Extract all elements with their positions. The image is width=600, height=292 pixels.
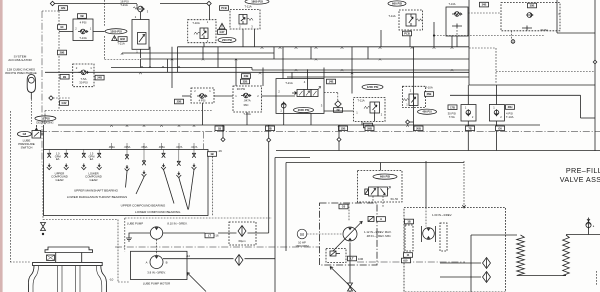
- svg-text:G0: G0: [342, 205, 346, 209]
- svg-text:610M: 610M: [541, 28, 549, 32]
- node arrow 464: [463, 205, 466, 208]
- svg-text:15 PSI: 15 PSI: [41, 116, 50, 120]
- prefill check valve: [586, 218, 595, 235]
- svg-text:1800 RPM: 1800 RPM: [295, 244, 309, 248]
- solenoid compensator top: [368, 217, 386, 222]
- svg-text:T-13A: T-13A: [506, 115, 514, 119]
- wire diamond to v413: [410, 121, 414, 123]
- svg-text:T-10A: T-10A: [425, 86, 433, 90]
- wire relief drop: [361, 121, 363, 125]
- lead line upper compound brg: [164, 170, 175, 204]
- wire v339 drop2: [338, 142, 340, 151]
- boundary dash-dot y131.5: [40, 131, 600, 133]
- wire v497 low: [496, 121, 498, 151]
- value oval 200 PSI: [218, 37, 236, 42]
- filter diamond right1: [483, 258, 491, 269]
- pump group dash-dot box: [320, 203, 378, 265]
- wire v469 low: [467, 121, 469, 151]
- wire left bus dashed: [58, 11, 60, 110]
- svg-text:T-21A: T-21A: [285, 81, 293, 85]
- wire nozzle stem 4: [98, 150, 100, 153]
- wire port tick 179: [178, 143, 180, 150]
- lube motor circle: [146, 256, 168, 269]
- svg-text:14B: 14B: [329, 80, 334, 84]
- wire port tick 144: [143, 143, 145, 150]
- wire v464 dashed: [463, 161, 465, 207]
- wire v452: [451, 36, 453, 47]
- wire motor out right: [163, 258, 234, 260]
- wire y66 rail: [111, 67, 252, 69]
- svg-text:.38 IN.~3/REV. MIN.: .38 IN.~3/REV. MIN.: [366, 234, 391, 238]
- value oval 15 PSI DECREASING: [35, 116, 56, 121]
- wire v368: [367, 47, 369, 59]
- value oval 600 PSI top: [388, 1, 406, 6]
- label G02: [60, 101, 69, 106]
- wire dashed v43: [42, 165, 44, 220]
- wire v557: [556, 0, 558, 33]
- wire nozzle stem 2: [65, 150, 67, 153]
- cooler coil 2: [563, 235, 570, 276]
- cooler coil 1: [517, 235, 525, 276]
- svg-text:T-13A: T-13A: [79, 36, 87, 40]
- wire dashed v104 b: [104, 36, 106, 60]
- wire v218: [217, 47, 219, 68]
- wire pump shaft dashed: [156, 240, 158, 256]
- wire pilot drop1: [372, 196, 374, 202]
- label 14B: [327, 79, 336, 84]
- wire y234 right edge: [566, 234, 600, 236]
- wire v471: [470, 235, 472, 292]
- wire charge pump link: [425, 208, 427, 227]
- wire pilot feed: [380, 163, 382, 171]
- wire dashed lube encl left: [124, 218, 126, 251]
- orifice nozzle 4: [97, 153, 101, 157]
- svg-text:4 PSI: 4 PSI: [199, 99, 206, 103]
- svg-text:600 PSI: 600 PSI: [380, 175, 390, 179]
- solenoid compensator bottom: [326, 249, 346, 263]
- wire dashed solenoid elbow: [324, 92, 338, 94]
- svg-text:24B: 24B: [244, 74, 249, 78]
- svg-text:PRE–FILL: PRE–FILL: [566, 166, 600, 175]
- node diamond right: [207, 1, 211, 5]
- label PCB 2: [403, 31, 412, 36]
- svg-text:1B: 1B: [407, 220, 410, 224]
- wire y96 b: [214, 95, 233, 97]
- wire relief drop2: [374, 113, 376, 121]
- wire dashed 513 drop: [511, 31, 513, 39]
- label 2B: [60, 74, 69, 79]
- wire v426 top: [425, 161, 427, 207]
- wire 4psi drop: [202, 103, 204, 125]
- svg-text:.047A: .047A: [243, 99, 250, 103]
- svg-text:T-11A: T-11A: [357, 99, 364, 103]
- wire v172: [171, 47, 173, 88]
- drain funnel 8: [176, 172, 181, 178]
- pilot valve 600 PSI box: [358, 171, 403, 203]
- svg-text:UPPER COMPOUND BEARING: UPPER COMPOUND BEARING: [121, 204, 166, 208]
- value oval 1200 PSI mid: [362, 84, 383, 89]
- svg-text:G8: G8: [23, 132, 27, 136]
- wire y69 rail: [252, 69, 469, 71]
- wire box feed: [43, 125, 45, 150]
- wire nozzle stem 3: [83, 150, 85, 153]
- check valve 4PSI mid-left: [191, 88, 214, 103]
- wire dashed 457 down: [456, 30, 458, 36]
- svg-text:30H: 30H: [508, 105, 513, 109]
- svg-text:30B: 30B: [530, 4, 535, 8]
- wire main top rail y4: [53, 3, 138, 5]
- charge pump side bars: [421, 226, 423, 242]
- drain funnel 5: [125, 165, 130, 171]
- wire v177: [177, 47, 179, 73]
- label 1x: [208, 152, 217, 157]
- orifice nozzle 2: [64, 153, 68, 157]
- svg-text:-12: -12: [186, 254, 190, 258]
- wire port tick 194: [193, 143, 195, 150]
- wire v352b: [351, 59, 353, 94]
- value oval 2000 PSI: [294, 107, 314, 112]
- node dot 434: [433, 34, 435, 36]
- svg-text:36C: 36C: [243, 103, 248, 107]
- wire 339 drop: [338, 125, 340, 138]
- label 8B: [364, 123, 373, 128]
- wire t13a2 drop: [246, 112, 248, 125]
- wire nozzle stem 7: [163, 150, 165, 153]
- svg-text:LOWER COMPOUND BEARING: LOWER COMPOUND BEARING: [135, 210, 181, 214]
- lube manifold box: [44, 150, 209, 216]
- motor M circle: [297, 229, 307, 239]
- svg-text:1B: 1B: [210, 152, 213, 156]
- label 20B: [414, 126, 423, 131]
- svg-text:9C: 9C: [60, 25, 63, 29]
- svg-text:PCB: PCB: [404, 32, 410, 36]
- node diamond 406: [406, 120, 410, 124]
- drain funnel 1: [47, 164, 52, 170]
- wire v286: [285, 163, 287, 252]
- wire v311: [310, 47, 312, 59]
- pressure switch symbol: [32, 127, 44, 138]
- label 29B: [58, 50, 67, 55]
- wire dashed box top left: [45, 110, 213, 112]
- svg-text:10M: 10M: [358, 257, 363, 261]
- svg-text:T-21A: T-21A: [120, 3, 128, 7]
- svg-text:T-13A: T-13A: [449, 2, 456, 6]
- wire nozzle stem 6: [143, 150, 145, 161]
- wire check box stem: [456, 36, 458, 47]
- svg-text:800 PSI PRECHARGE: 800 PSI PRECHARGE: [5, 71, 36, 75]
- wire lt to filter: [218, 232, 237, 234]
- orifice nozzle 6: [142, 161, 146, 165]
- check valve box top right: [446, 2, 468, 36]
- drain funnel 9: [192, 164, 197, 170]
- node diamond 595: [593, 60, 597, 64]
- lead line mainshaft: [126, 172, 128, 188]
- svg-text:-16: -16: [215, 234, 219, 238]
- lead line radial: [136, 177, 144, 194]
- wire dashed v104: [104, 0, 106, 26]
- crusher bell right2: [96, 266, 102, 292]
- svg-text:2B: 2B: [336, 108, 339, 112]
- wire y118 right: [581, 117, 596, 119]
- svg-text:G6: G6: [498, 126, 502, 130]
- pump variable arrow: [333, 222, 362, 252]
- label 1B charge: [405, 219, 414, 224]
- relief valve T-11A no2 top: [388, 10, 422, 30]
- label 34B: [480, 2, 489, 7]
- svg-text:15B: 15B: [341, 126, 346, 130]
- wire solenoid port1 drop: [283, 108, 285, 125]
- svg-text:26B: 26B: [427, 92, 432, 96]
- orifice nozzle 3: [82, 153, 86, 157]
- wire v580 right: [580, 95, 582, 118]
- label 9C: [58, 25, 67, 30]
- svg-text:1800 PSI: 1800 PSI: [251, 0, 263, 4]
- svg-text:T-11A: T-11A: [388, 14, 395, 18]
- svg-text:20B: 20B: [416, 126, 421, 130]
- label 32B: [241, 79, 250, 84]
- wire y157 stub: [275, 157, 310, 159]
- wire y77 rail: [287, 76, 469, 78]
- svg-text:25B: 25B: [177, 100, 182, 104]
- filter 60um dashed box: [229, 222, 256, 245]
- wire dashdot v42: [41, 11, 43, 165]
- relief valve T-10A no1: [188, 20, 216, 47]
- svg-text:G02: G02: [62, 101, 67, 105]
- wire dashed v212: [212, 157, 214, 216]
- label 6B: [78, 14, 87, 19]
- wire dashdot y262: [357, 261, 465, 263]
- relief valve top centre: [230, 10, 260, 30]
- crusher bell left2: [33, 266, 39, 292]
- svg-text:2000 PSI: 2000 PSI: [298, 108, 310, 112]
- label 24B right: [242, 74, 251, 79]
- wire dashed lube encl top: [125, 217, 272, 219]
- drain funnel 3: [81, 164, 86, 170]
- svg-text:LT: LT: [351, 257, 354, 261]
- wire y31.5 rail b: [93, 31, 105, 33]
- wire v283: [282, 47, 284, 79]
- label 11 small: [404, 253, 413, 258]
- valve T-21A top: [120, 0, 149, 58]
- wire v434: [433, 22, 435, 47]
- wire dash-dot v203: [203, 132, 205, 150]
- junction arrows y46: [261, 47, 264, 49]
- svg-text:LOWER RADIAL/MAIN THRUST BEARI: LOWER RADIAL/MAIN THRUST BEARINGS: [67, 195, 127, 199]
- wire port tick 127: [126, 143, 128, 150]
- wire nozzle stem 8: [178, 150, 180, 161]
- wire solenoid3 to relief: [324, 110, 354, 112]
- label B02: [118, 37, 127, 42]
- node diamond 223: [221, 138, 225, 142]
- wire v203: [202, 47, 204, 59]
- filter diamond right2: [483, 272, 491, 283]
- wire y58 rail: [141, 58, 470, 60]
- value oval 1200 PSI left: [105, 29, 127, 34]
- crusher inner shafts: [58, 266, 81, 292]
- wire v469 top: [468, 0, 470, 28]
- label 1B: [215, 126, 224, 131]
- wire dashed v596: [596, 271, 598, 286]
- wire dashed y71.5 right: [496, 71, 595, 73]
- wire dashed top right a: [468, 12, 501, 14]
- label LT box: [205, 233, 214, 238]
- node diamond 339: [337, 138, 341, 142]
- label 25B: [175, 99, 184, 104]
- check valve T-13A no1: [73, 19, 93, 41]
- label 12B: [59, 6, 68, 11]
- node diamond left: [50, 1, 54, 5]
- label 24B: [95, 75, 104, 80]
- svg-text:1.00 IN.~3/REV.: 1.00 IN.~3/REV.: [432, 213, 452, 217]
- wire nozzle stem 1: [48, 150, 50, 153]
- charge pump dashed box: [404, 208, 506, 292]
- svg-text:12B: 12B: [61, 6, 66, 10]
- svg-text:2B: 2B: [63, 75, 66, 79]
- pressure reducing valve T-10A right: [403, 86, 426, 107]
- wire v269 drop: [268, 142, 270, 151]
- svg-text:GEAR: GEAR: [56, 178, 64, 182]
- wire port tick 111.5: [111, 143, 113, 150]
- wire relief centre drop a: [242, 29, 244, 47]
- node diamond 267: [267, 138, 271, 142]
- drain funnel 7: [161, 164, 166, 170]
- svg-text:17B: 17B: [450, 105, 455, 109]
- svg-text:T-10A: T-10A: [192, 21, 200, 25]
- main pump circle: [343, 227, 357, 241]
- wire dashed h219: [43, 219, 118, 221]
- label PCB top: [220, 6, 229, 11]
- wire to filter r2: [440, 276, 481, 278]
- wire accumulator stem: [30, 92, 32, 99]
- wire v469a: [468, 28, 470, 47]
- wire accumulator dashed drop: [30, 99, 32, 124]
- wire v167: [167, 59, 169, 72]
- wire 267 drop: [268, 125, 270, 138]
- wire top rail y4 right: [160, 3, 209, 5]
- wire pilot drop2: [382, 196, 384, 208]
- check valve T-5A: [73, 64, 94, 87]
- wire diamond drop: [209, 6, 211, 21]
- wire -10 riser dashed: [117, 220, 119, 283]
- filter check mid: [334, 101, 343, 112]
- wire diamond stub dashed: [53, 97, 70, 99]
- wire v275: [274, 158, 276, 292]
- wire relief centre drop b: [254, 29, 256, 47]
- svg-text:EA: EA: [90, 157, 94, 161]
- solenoid valve T-21A: [276, 69, 324, 113]
- svg-text:400 PSI: 400 PSI: [422, 110, 432, 114]
- value oval G8: [17, 131, 31, 136]
- wire y96 a: [182, 95, 191, 97]
- wire v274b: [273, 47, 275, 59]
- svg-text:200 PSI: 200 PSI: [222, 38, 232, 42]
- inner dashed box charge: [440, 223, 447, 251]
- wire y162 rail: [286, 162, 464, 164]
- pump case drain valve: [348, 283, 353, 291]
- wire dashed h262: [10, 261, 30, 263]
- wire v352: [351, 47, 353, 59]
- value oval 600 PSI pilot: [373, 174, 397, 179]
- svg-text:29B: 29B: [367, 126, 372, 130]
- arrow leader pump box: [330, 267, 356, 292]
- orifice nozzle 5: [125, 155, 129, 159]
- svg-text:T-5A: T-5A: [449, 115, 455, 119]
- svg-text:3.8 IN.~3/REV.: 3.8 IN.~3/REV.: [147, 270, 166, 274]
- svg-text:1200 PSI: 1200 PSI: [367, 85, 379, 89]
- wire y94 right: [450, 94, 581, 96]
- wire motor link: [307, 233, 343, 235]
- label 30B: [528, 3, 537, 8]
- wire dashed pump feed: [348, 204, 350, 222]
- wire v381: [380, 30, 382, 47]
- label G07: [218, 30, 227, 35]
- label 26B: [425, 92, 434, 97]
- svg-text:-16: -16: [218, 149, 223, 153]
- wire dashed y48 elbow: [469, 47, 496, 49]
- label 17B: [448, 105, 457, 110]
- wire y72 rail: [45, 71, 469, 73]
- svg-text:1B: 1B: [218, 126, 221, 130]
- svg-text:PCB: PCB: [221, 6, 227, 10]
- svg-text:SWITCH: SWITCH: [21, 145, 33, 149]
- wire y96 c: [262, 95, 296, 97]
- svg-text:UPPER MAINSHAFT BEARING: UPPER MAINSHAFT BEARING: [74, 189, 119, 193]
- svg-text:EA: EA: [56, 157, 60, 161]
- wire to filter r1: [440, 262, 481, 264]
- lube motor box: [131, 251, 188, 279]
- crusher bearing box: [47, 255, 55, 260]
- wire y125 manifold: [58, 124, 540, 126]
- wire y31.5 rail a: [59, 31, 73, 33]
- label 15B: [339, 126, 348, 131]
- svg-text:24B: 24B: [97, 76, 102, 80]
- svg-text:LUBE PUMP MOTOR: LUBE PUMP MOTOR: [143, 282, 170, 286]
- svg-text:32B: 32B: [243, 80, 248, 84]
- svg-text:A: A: [146, 260, 148, 264]
- crusher top plate: [45, 247, 93, 253]
- value oval 1800 PSI: [245, 0, 269, 4]
- wire v236: [235, 59, 237, 86]
- wire y46 long rail: [178, 46, 470, 48]
- wire v292: [291, 72, 293, 78]
- wire v150: [149, 47, 151, 68]
- label 30H: [506, 105, 515, 110]
- svg-text:600 PSI: 600 PSI: [392, 2, 402, 6]
- orifice nozzle 1: [47, 153, 51, 157]
- svg-text:LUBE PUMP: LUBE PUMP: [127, 222, 143, 226]
- wire 223 drop: [222, 125, 224, 138]
- drain funnel 4: [97, 164, 102, 170]
- wire y53 rail: [122, 52, 274, 54]
- orifice nozzle 9: [192, 153, 196, 157]
- pilot valve spool: [365, 187, 391, 197]
- filter diamond 2: [235, 255, 243, 266]
- label 2Bb: [266, 126, 275, 131]
- value oval 400 PSI: [418, 109, 437, 114]
- wire v263: [262, 68, 264, 87]
- svg-text:6B: 6B: [80, 14, 83, 18]
- label 29Bb: [365, 126, 374, 131]
- wire v595: [594, 0, 596, 151]
- label G0 small: [339, 204, 348, 209]
- label 10 small: [402, 258, 411, 263]
- crusher bell left: [28, 266, 34, 292]
- svg-text:.50-.50: .50-.50: [390, 197, 399, 201]
- wire v469 mid: [468, 47, 470, 85]
- wire y85 right: [469, 84, 595, 86]
- wire lube pump out: [163, 232, 205, 234]
- check valve box right no2: [489, 105, 504, 122]
